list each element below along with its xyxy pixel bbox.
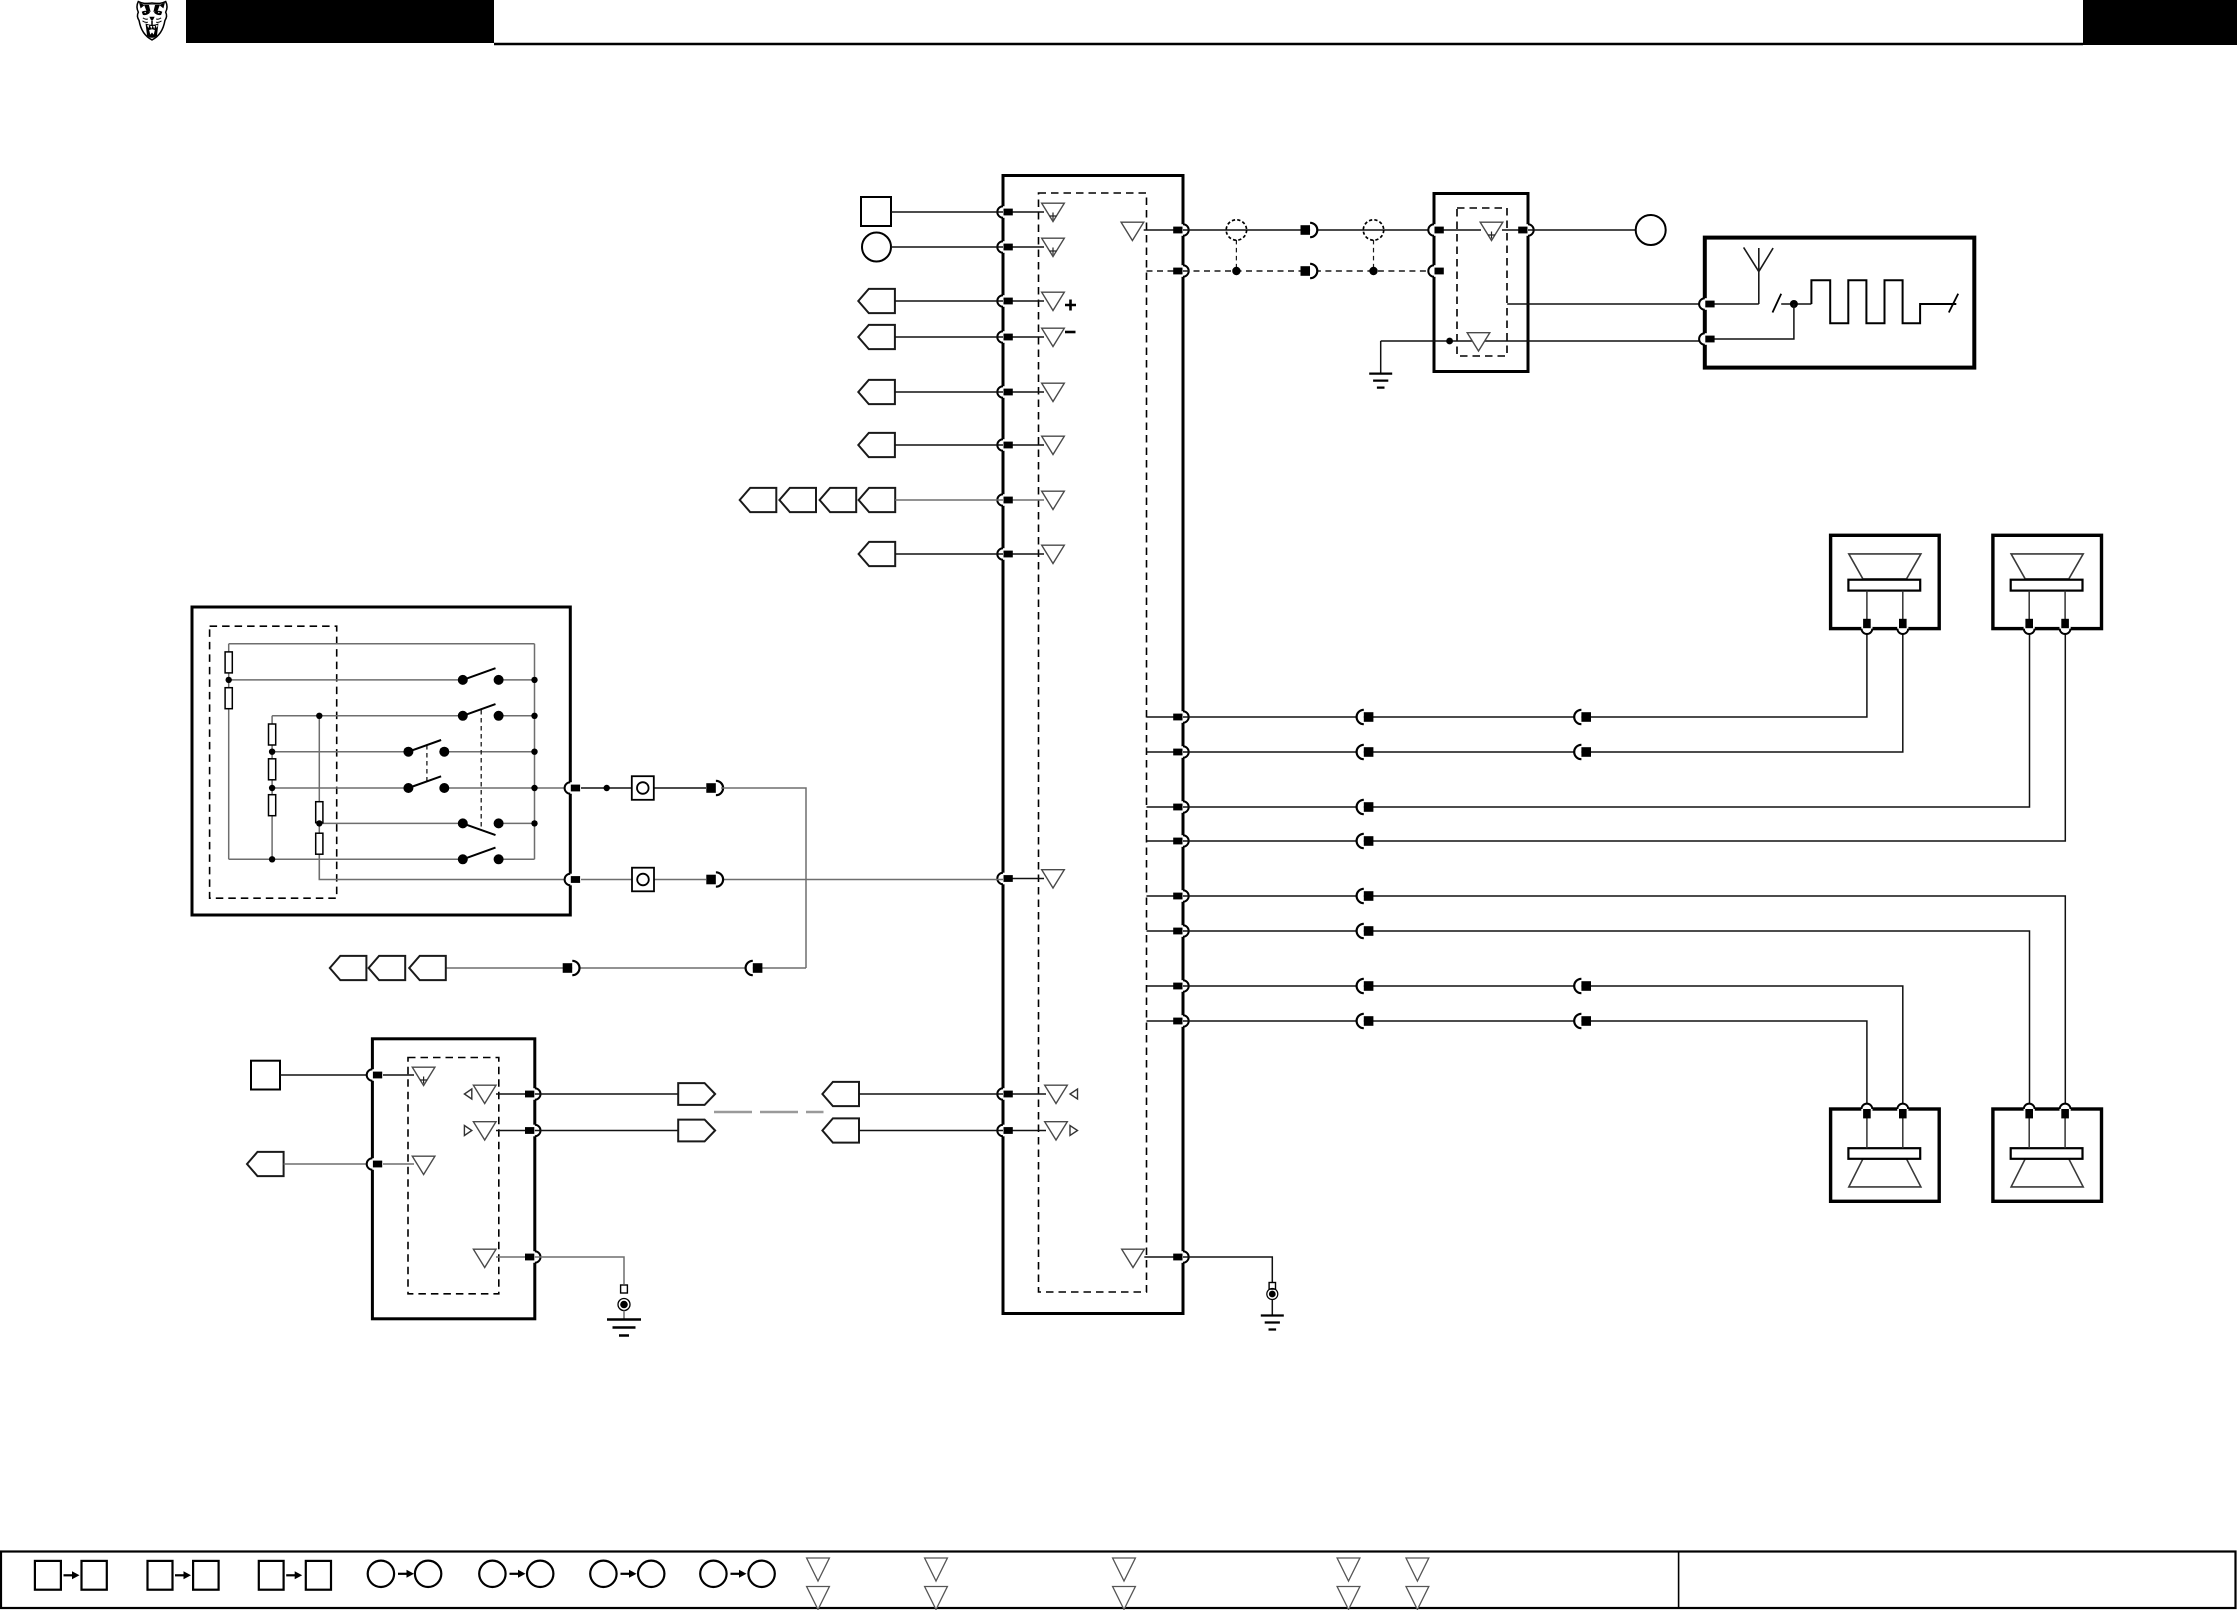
- wire row 337: [895, 336, 1003, 338]
- wire speaker row 717 inside: [1147, 716, 1184, 718]
- connector arrow chain row 500 c: [820, 488, 857, 512]
- wire pin5 row 392: [1003, 391, 1044, 393]
- legend triangle-pair 3: [1113, 1558, 1136, 1610]
- resistor R5: [269, 795, 276, 816]
- junction dot relay ground: [1446, 338, 1453, 345]
- triangle K1-T1 (+) row 230: [1480, 222, 1503, 240]
- wire U2 out row 1094: [535, 1093, 678, 1095]
- wire triangle T13 to ground pin: [1144, 1256, 1183, 1258]
- triangle T3 row 301 with plus label: [1042, 292, 1065, 310]
- wire circle to pin row 247: [891, 246, 1003, 248]
- wire speaker row 807: [1183, 634, 2030, 807]
- legend triangle-pair 5: [1406, 1558, 1429, 1610]
- inline connectors speaker rows col1: [1357, 710, 1374, 724]
- wire speaker row 1021 inside: [1147, 1020, 1184, 1022]
- wire U2 ground row to pin: [496, 1256, 535, 1258]
- connector arrow chain row 968 a: [330, 956, 367, 980]
- wire row B: [229, 679, 535, 681]
- legend triangle-pair 2: [925, 1558, 948, 1610]
- wire speaker row 896 inside: [1147, 895, 1184, 897]
- legend triangle-pair 1: [807, 1558, 830, 1610]
- wire speaker row 807 inside: [1147, 806, 1184, 808]
- inline connectors speaker rows col2: [1574, 710, 1591, 724]
- wire pin7 row 500: [1003, 499, 1044, 501]
- wire pack pin2 to amp: [581, 879, 1003, 881]
- connector arrow row 554: [859, 542, 896, 566]
- switch slash 2: [1949, 294, 1958, 313]
- legend divider: [1678, 1552, 1680, 1609]
- triangle U2-T5 ground row 1257: [473, 1249, 496, 1267]
- U1 left pins column: [997, 206, 1013, 218]
- resistor R3: [269, 724, 276, 745]
- wire row E output: [272, 787, 570, 789]
- U2 ground stem: [623, 1311, 625, 1320]
- triangle T10 row 1094 with aux-in mark: [1045, 1085, 1068, 1103]
- wire row 392: [895, 391, 1003, 393]
- wire U2 pin row 1164 to triangle: [383, 1163, 414, 1165]
- U1 ground stem: [1271, 1300, 1273, 1316]
- switch pack dashed box: [210, 626, 337, 898]
- triangle T13 ground row 1257: [1122, 1249, 1145, 1267]
- header black bar left: [186, 0, 494, 43]
- triangle U2-T3 row 1094 with mark: [473, 1085, 496, 1103]
- gray dashed aux link: [714, 1111, 824, 1113]
- Jaguar growler logo: [137, 2, 167, 40]
- connector arrow chain row 968 c: [409, 956, 446, 980]
- wire speaker row 752: [1183, 634, 1903, 752]
- wire bus column: [534, 644, 536, 860]
- switch pack pin 2: [565, 874, 581, 886]
- wire pin10 row 1094: [1003, 1093, 1046, 1095]
- triangle T9 row 878.5: [1042, 870, 1065, 888]
- legend square-pair 1: [35, 1561, 107, 1590]
- U1 earth ground: [1261, 1316, 1284, 1330]
- resistor R1: [225, 652, 232, 673]
- dashed drop S2: [1373, 240, 1375, 271]
- header black bar right: [2083, 0, 2237, 45]
- wire row H return: [319, 855, 570, 879]
- wire speaker row 896: [1183, 896, 2065, 1104]
- wire arrow row 968: [445, 967, 806, 969]
- dashed wire row 271 inside: [1147, 270, 1184, 272]
- connector arrow row 445: [858, 433, 895, 457]
- antenna box pins: [1699, 298, 1715, 310]
- dashed wire amp to relay row 271: [1183, 270, 1434, 272]
- wire arrow to U2 pin row 1164: [284, 1163, 373, 1165]
- dashed drop S1: [1235, 240, 1237, 271]
- header rule line: [494, 43, 2083, 46]
- U1 ground wire to bolt: [1183, 1257, 1272, 1283]
- aux module dashed box: [408, 1058, 499, 1294]
- wire ladder column 3: [318, 716, 320, 880]
- wire ladder column 1: [228, 644, 230, 860]
- wire speaker row 931 inside: [1147, 930, 1184, 932]
- splice circle S1 row 230: [1226, 220, 1246, 240]
- wire row A: [229, 643, 535, 645]
- triangle T5 row 392: [1042, 383, 1065, 401]
- splice circle S2 row 230: [1363, 220, 1383, 240]
- wire pin3 row 301: [1003, 300, 1044, 302]
- switch slash 1: [1773, 294, 1782, 313]
- legend circle-pair 3: [590, 1561, 664, 1587]
- connector arrow chain row 500 a: [740, 488, 777, 512]
- gang dashed link SW3-SW4: [426, 745, 428, 781]
- relay K1 pins: [1428, 224, 1444, 236]
- relay earth ground: [1369, 374, 1392, 388]
- legend triangle-pair 4: [1337, 1558, 1360, 1610]
- wire row G: [229, 858, 535, 860]
- wire to amp row 1094: [859, 1093, 1003, 1095]
- node circle antenna motor feed: [1636, 215, 1666, 245]
- wire pin6 row 445: [1003, 444, 1044, 446]
- node square U2 feed: [251, 1061, 280, 1090]
- wire ladder column 2: [271, 716, 273, 860]
- U1 ground bolt: [1267, 1283, 1278, 1300]
- U2 earth ground: [607, 1320, 641, 1336]
- U1 right pins column: [1173, 224, 1189, 236]
- connector arrow row 301: [858, 289, 895, 313]
- wire row1 to drop: [721, 788, 806, 968]
- wire row 445: [895, 444, 1003, 446]
- wire antenna feed row 304: [1507, 303, 1699, 305]
- wire pin1 to triangle row 212: [1003, 211, 1044, 213]
- connector arrow left row 1094: [822, 1082, 859, 1106]
- legend circle-pair 4: [700, 1561, 775, 1587]
- square wave signal: [1811, 280, 1956, 323]
- junction dot S2 row 271: [1369, 267, 1377, 275]
- switch SW2 row C: [458, 704, 504, 721]
- wire row 301: [895, 300, 1003, 302]
- switch pack pin 1: [565, 782, 581, 794]
- antenna symbol: [1744, 247, 1774, 304]
- wire speaker row 717: [1183, 634, 1867, 717]
- inline connector C3 square-circle: [632, 868, 654, 892]
- inline connector C2: [706, 781, 723, 795]
- wire U2 row 1094 to pin: [496, 1093, 535, 1095]
- amplifier U1 connector dashed box: [1039, 193, 1147, 1292]
- switch SW5 row F: [458, 818, 504, 835]
- wire speaker row 986 inside: [1147, 985, 1184, 987]
- connector arrow chain row 968 b: [369, 956, 406, 980]
- legend circle-pair 2: [479, 1561, 553, 1587]
- switch pack SW outer box: [192, 607, 570, 915]
- connector arrow right row 1130.5: [678, 1120, 715, 1142]
- wire row F: [319, 822, 534, 824]
- switch SW3 row D: [403, 740, 449, 757]
- connector arrow row 392: [858, 380, 895, 404]
- gang dashed link SW2-SW5: [480, 710, 482, 827]
- triangle T6 row 445: [1042, 436, 1065, 454]
- wire pin4 row 337: [1003, 336, 1044, 338]
- wire relay to output circle: [1528, 229, 1636, 231]
- resistor R7: [316, 833, 323, 854]
- legend square-pair 3: [259, 1561, 331, 1590]
- junction dot antenna: [1790, 300, 1798, 308]
- junction dot pack row1: [604, 785, 610, 791]
- wire pin11 row 1130.5: [1003, 1130, 1046, 1132]
- switch SW6 row G: [458, 848, 504, 865]
- wire U2 row 1130.5 to pin: [496, 1130, 535, 1132]
- legend square-pair 2: [148, 1561, 219, 1590]
- U2 ground bolt: [621, 1285, 628, 1293]
- wire dot to wave: [1781, 303, 1811, 305]
- wire speaker row 986: [1183, 986, 1903, 1104]
- junction dot S1 row 271: [1232, 267, 1240, 275]
- node square B+ feed: [861, 197, 891, 226]
- connector arrow left row 1130.5: [822, 1118, 859, 1142]
- wire pin9 row 878.5 volume: [1003, 878, 1044, 880]
- wire speaker row 752 inside: [1147, 751, 1184, 753]
- triangle T1 (+) row 212: [1042, 203, 1065, 221]
- wire speaker row 841 inside: [1147, 840, 1184, 842]
- relay K1 dashed box: [1457, 208, 1507, 356]
- wire speaker row 841: [1183, 634, 2065, 841]
- wire speaker row 931: [1183, 931, 2030, 1104]
- wire row D: [272, 751, 534, 753]
- wire triangle to relay right pin row 230: [1502, 229, 1528, 231]
- connector arrow right row 1094: [678, 1083, 715, 1105]
- triangle T7 row 500: [1042, 491, 1065, 509]
- U2 left pins: [367, 1069, 383, 1081]
- inline connector row 230: [1301, 223, 1318, 237]
- triangle T8 row 554: [1042, 545, 1065, 563]
- antenna amplifier box: [1705, 238, 1975, 368]
- wire to amp row 1130.5: [859, 1130, 1003, 1132]
- legend box: [1, 1552, 2236, 1609]
- connector arrow chain row 500 d: [859, 488, 896, 512]
- triangle T12 top right row 230: [1121, 222, 1144, 240]
- relay K1 outer box: [1434, 194, 1528, 372]
- junction dots bus: [531, 677, 537, 683]
- triangle T11 row 1130.5 with aux-out mark: [1045, 1122, 1068, 1140]
- connector arrow row 337: [858, 325, 895, 349]
- speaker LS4 rear left: [1993, 1104, 2102, 1202]
- speaker LS3 rear right: [1831, 1104, 1940, 1202]
- wire square to U2 pin row 1075: [280, 1074, 372, 1076]
- wire antenna pin1 inside: [1705, 303, 1759, 305]
- inline connector row 271: [1301, 264, 1318, 278]
- inline connector C4: [706, 872, 723, 886]
- speaker LS1 front right: [1831, 535, 1940, 634]
- wire speaker row 1021: [1183, 1021, 1867, 1104]
- inline connector C5: [563, 961, 580, 975]
- wire row C: [272, 715, 534, 717]
- connector arrow chain row 500 b: [779, 488, 816, 512]
- triangle U2-T1 (+) row 1075: [412, 1067, 435, 1085]
- U2 right pins: [525, 1088, 541, 1100]
- relay ground drop: [1380, 341, 1382, 373]
- resistor R2: [225, 688, 232, 709]
- switch SW1 row B: [458, 668, 504, 685]
- triangle U2-T2 row 1164: [412, 1156, 435, 1174]
- wire antenna pin2 inside: [1705, 304, 1794, 339]
- resistor R4: [269, 759, 276, 780]
- U2 ground wire to bolt: [535, 1257, 624, 1284]
- triangle T2 (+) row 247: [1042, 238, 1065, 256]
- wire U2 out row 1130.5: [535, 1130, 678, 1132]
- wire pack pin1 to connector: [581, 787, 706, 789]
- wire square to pin row 212: [891, 211, 1003, 213]
- wire U2 pin row 1075 to triangle: [383, 1074, 414, 1076]
- speaker LS2 front left: [1993, 535, 2102, 634]
- wire triangle T12 to right pin row 230: [1144, 229, 1183, 231]
- wire row 500: [895, 499, 1003, 501]
- junction dots ladder: [226, 677, 232, 683]
- connector arrow U2 row 1164: [247, 1152, 284, 1176]
- triangle K1-T2 row 341: [1467, 333, 1490, 351]
- wire relay pin row 230 to triangle: [1434, 229, 1481, 231]
- wire pin2 to triangle row 247: [1003, 246, 1044, 248]
- node circle ignition feed: [862, 233, 891, 262]
- wire pin8 row 554: [1003, 553, 1044, 555]
- triangle T4 row 337 with minus label: [1042, 328, 1065, 346]
- amplifier U1 outer box: [1003, 176, 1183, 1314]
- wire row 554: [895, 553, 1003, 555]
- relay ground feed wire row 341: [1381, 340, 1699, 342]
- legend circle-pair 1: [368, 1561, 442, 1587]
- inline connector C6: [746, 961, 763, 975]
- resistor R6: [316, 802, 323, 823]
- switch SW4 row E: [403, 776, 449, 793]
- wire amp to relay row 230: [1183, 229, 1434, 231]
- triangle U2-T4 row 1130.5 with mark: [473, 1122, 496, 1140]
- aux module U2 outer box: [372, 1039, 534, 1319]
- inline connector C1 square-circle: [632, 776, 654, 800]
